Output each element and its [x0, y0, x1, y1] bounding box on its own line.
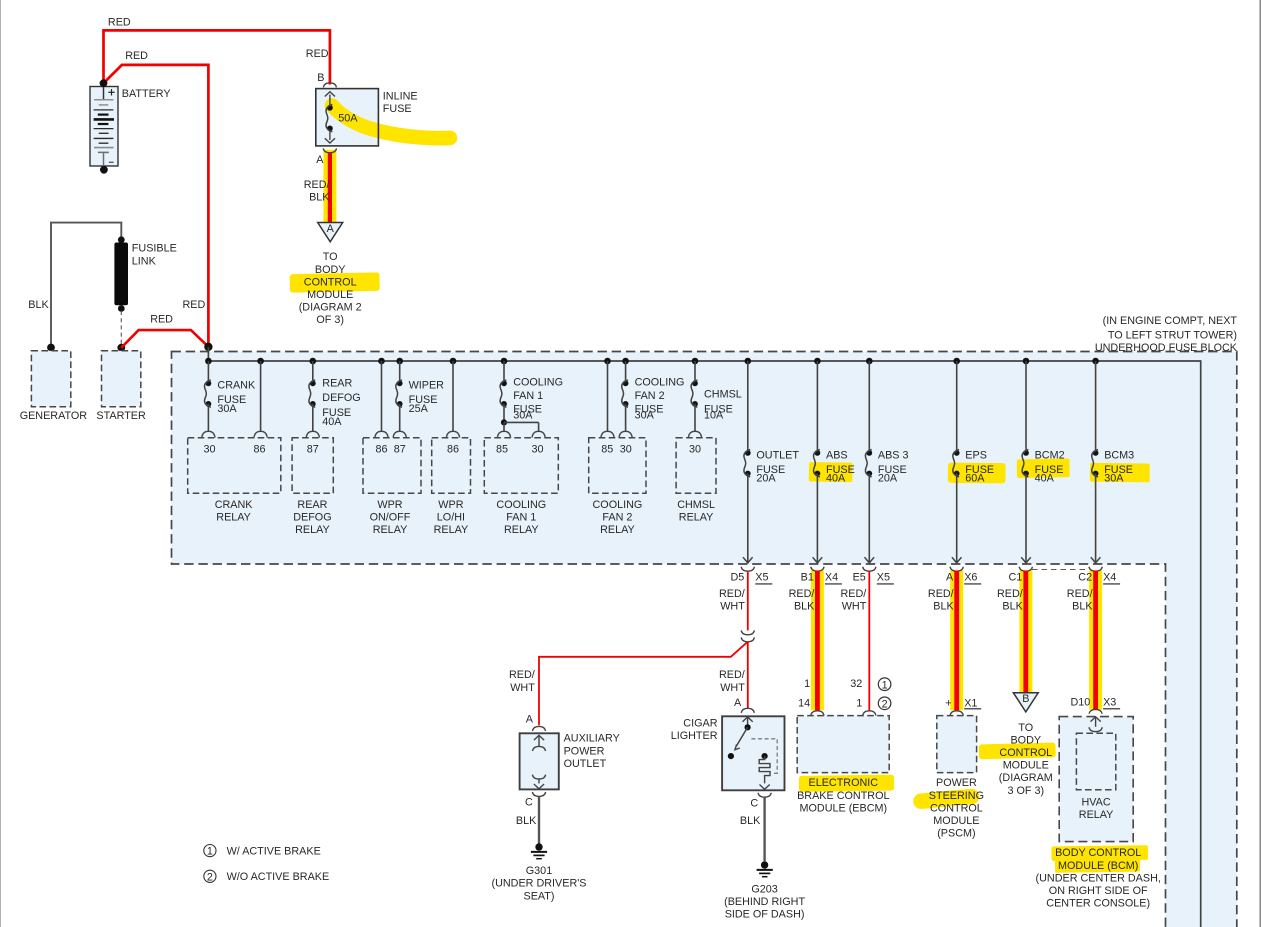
- svg-text:85: 85: [496, 443, 508, 455]
- svg-text:ELECTRONIC: ELECTRONIC: [809, 777, 879, 789]
- svg-text:BLK: BLK: [794, 601, 815, 613]
- svg-text:BLK: BLK: [1072, 601, 1093, 613]
- highlight on STEERING (PSCM label): [921, 797, 972, 802]
- svg-text:AUXILIARY: AUXILIARY: [564, 733, 620, 745]
- highlight on ELECTRONIC (EBCM label): [799, 775, 894, 792]
- auxiliary power outlet: [520, 714, 620, 809]
- starter: [96, 344, 146, 422]
- svg-text:D10: D10: [1070, 697, 1090, 709]
- wire bus to wpr lo/hi relay pin 86: [446, 361, 459, 438]
- screen edge line left: [0, 0, 2, 927]
- highlight swoosh over inline fuse 50A: [332, 106, 450, 139]
- svg-text:BLK: BLK: [740, 815, 761, 827]
- svg-text:REAR: REAR: [297, 499, 327, 511]
- svg-text:87: 87: [307, 443, 319, 455]
- svg-text:ON RIGHT SIDE OF: ON RIGHT SIDE OF: [1049, 885, 1148, 897]
- svg-text:X4: X4: [825, 572, 838, 584]
- svg-text:A: A: [526, 714, 534, 726]
- highlight band on wire B1 to EBCM: [811, 571, 824, 711]
- wire label RED/BLK at connector: [928, 588, 955, 613]
- svg-text:(IN ENGINE COMPT, NEXT: (IN ENGINE COMPT, NEXT: [1103, 315, 1238, 327]
- svg-text:30A: 30A: [513, 410, 533, 422]
- svg-text:X4: X4: [1103, 572, 1116, 584]
- svg-text:BLK: BLK: [933, 601, 954, 613]
- wire cooling fan 2 fuse to relay pin 30: [619, 404, 632, 438]
- svg-text:BODY CONTROL: BODY CONTROL: [1055, 847, 1141, 859]
- wire: main power bus inside fuse block: [205, 347, 1201, 927]
- svg-text:WIPER: WIPER: [409, 380, 445, 392]
- svg-text:RELAY: RELAY: [679, 512, 714, 524]
- connector D5 X5: [730, 567, 772, 584]
- svg-text:86: 86: [375, 443, 387, 455]
- HVAC relay (inside BCM): [1076, 733, 1115, 821]
- svg-text:C: C: [750, 797, 758, 809]
- svg-text:BLK: BLK: [28, 299, 49, 311]
- wire RED branch to auxiliary power outlet pin A: [509, 642, 748, 725]
- svg-text:(DIAGRAM 2: (DIAGRAM 2: [299, 302, 362, 314]
- svg-text:CONTROL: CONTROL: [930, 802, 983, 814]
- svg-text:30A: 30A: [635, 410, 655, 422]
- wire bus to crank relay pin 86: [254, 361, 267, 438]
- svg-text:RELAY: RELAY: [600, 524, 635, 536]
- svg-text:WHT: WHT: [720, 601, 745, 613]
- svg-text:CIGAR: CIGAR: [683, 718, 717, 730]
- svg-text:30: 30: [689, 443, 701, 455]
- highlight on EPS FUSE 60A: [948, 463, 1006, 484]
- fuse BCM2 fuse 40A: [1021, 361, 1064, 563]
- svg-text:CHMSL: CHMSL: [704, 389, 742, 401]
- svg-text:MODULE (BCM): MODULE (BCM): [1058, 860, 1138, 872]
- highlight band on RED/BLK wire below inline fuse: [323, 150, 336, 223]
- svg-text:RED/: RED/: [509, 669, 535, 681]
- svg-text:40A: 40A: [322, 416, 342, 428]
- svg-text:RELAY: RELAY: [373, 524, 408, 536]
- wire label RED/BLK at connector: [789, 588, 816, 613]
- svg-text:FUSE: FUSE: [383, 103, 412, 115]
- wire crank fuse to crank relay pin 30: [202, 404, 215, 438]
- svg-text:A: A: [946, 572, 954, 584]
- svg-text:FAN 2: FAN 2: [602, 512, 632, 524]
- generator: [20, 344, 88, 423]
- highlight on CONTROL (to BCM diagram 2 of 3): [290, 272, 380, 292]
- svg-text:FAN 2: FAN 2: [635, 390, 665, 402]
- svg-text:RELAY: RELAY: [216, 512, 251, 524]
- svg-text:FAN 1: FAN 1: [506, 512, 536, 524]
- svg-text:RED: RED: [150, 313, 173, 325]
- svg-text:RED/: RED/: [841, 588, 867, 600]
- svg-text:DEFOG: DEFOG: [293, 512, 331, 524]
- svg-text:D5: D5: [730, 572, 744, 584]
- svg-text:COOLING: COOLING: [593, 499, 643, 511]
- svg-text:COOLING: COOLING: [635, 377, 685, 389]
- wire label RED/BLK at connector: [997, 588, 1024, 613]
- WPR LO/HI relay: [432, 438, 471, 536]
- svg-text:X3: X3: [1103, 697, 1116, 709]
- svg-text:RELAY: RELAY: [1079, 809, 1114, 821]
- fuse ABS 3 fuse 20A: [865, 361, 909, 563]
- svg-text:G203: G203: [751, 884, 777, 896]
- svg-text:TO: TO: [323, 251, 338, 263]
- svg-text:86: 86: [447, 443, 459, 455]
- highlight on BCM3 FUSE 30A: [1090, 463, 1150, 482]
- svg-text:RED/: RED/: [719, 588, 745, 600]
- fuse CRANK fuse 30A: [205, 361, 256, 415]
- svg-text:BODY: BODY: [1010, 734, 1041, 746]
- svg-text:CENTER CONSOLE): CENTER CONSOLE): [1046, 898, 1150, 910]
- svg-text:G301: G301: [526, 865, 552, 877]
- svg-text:86: 86: [253, 443, 265, 455]
- ground G203: [724, 861, 805, 920]
- svg-text:STEERING: STEERING: [929, 790, 984, 802]
- highlight on BCM2 FUSE 40A: [1017, 458, 1070, 478]
- svg-text:RED: RED: [183, 299, 206, 311]
- svg-text:WHT: WHT: [720, 682, 745, 694]
- svg-text:RED/: RED/: [304, 179, 330, 191]
- svg-text:20A: 20A: [878, 473, 898, 485]
- svg-text:BLK: BLK: [516, 815, 537, 827]
- wire RED/BLK inline fuse to connector A: [304, 153, 331, 222]
- wire cooling fan 1 fuse split to relay pins 85 and 30: [497, 404, 545, 438]
- svg-text:10A: 10A: [704, 409, 724, 421]
- highlight on CONTROL (to BCM diagram 3 of 3): [979, 742, 1056, 759]
- svg-text:BCM3: BCM3: [1104, 450, 1134, 462]
- svg-text:RELAY: RELAY: [504, 524, 539, 536]
- connector B triangle (to body control module diagram 3 of 3): [999, 693, 1053, 797]
- highlight on BODY CONTROL MODULE (BCM) label: [1051, 845, 1148, 872]
- svg-text:+: +: [945, 698, 951, 710]
- connector C1: [1008, 567, 1032, 584]
- svg-text:ABS 3: ABS 3: [878, 450, 909, 462]
- highlight band on wire A to PSCM: [950, 571, 963, 711]
- svg-text:25A: 25A: [409, 403, 429, 415]
- svg-text:87: 87: [394, 443, 406, 455]
- svg-text:C1: C1: [1008, 572, 1022, 584]
- svg-text:X5: X5: [877, 572, 890, 584]
- svg-text:COOLING: COOLING: [496, 499, 546, 511]
- wire RED/WHT E5 to EBCM pin 32/1: [850, 571, 869, 710]
- svg-text:COOLING: COOLING: [513, 377, 563, 389]
- svg-text:32: 32: [850, 678, 862, 690]
- svg-text:30: 30: [531, 443, 543, 455]
- svg-text:CHMSL: CHMSL: [677, 499, 715, 511]
- svg-text:BCM2: BCM2: [1035, 450, 1065, 462]
- svg-text:A: A: [734, 697, 742, 709]
- svg-text:CONTROL: CONTROL: [999, 747, 1052, 759]
- footnote legend 2: w/o active brake: [204, 870, 329, 883]
- COOLING FAN 2 relay: [589, 438, 646, 536]
- svg-text:LINK: LINK: [132, 255, 157, 267]
- ground G301: [491, 843, 586, 902]
- svg-text:RED/: RED/: [789, 588, 815, 600]
- svg-text:BATTERY: BATTERY: [122, 88, 171, 100]
- wire RED/BLK A to PSCM pin +: [945, 571, 981, 711]
- svg-text:50A: 50A: [338, 113, 358, 125]
- svg-text:WHT: WHT: [842, 601, 867, 613]
- svg-text:30: 30: [203, 443, 215, 455]
- svg-text:WPR: WPR: [377, 499, 402, 511]
- svg-text:LO/HI: LO/HI: [437, 512, 465, 524]
- wire RED battery positive to underhood fuse block: [104, 50, 209, 347]
- svg-text:B: B: [317, 72, 324, 84]
- svg-text:(BEHIND RIGHT: (BEHIND RIGHT: [724, 896, 805, 908]
- svg-text:BLK: BLK: [309, 192, 330, 204]
- connector B1 X4: [801, 567, 842, 584]
- svg-text:1: 1: [804, 678, 810, 690]
- svg-text:C2: C2: [1078, 572, 1092, 584]
- wire label RED/WHT at connector: [841, 588, 867, 613]
- footnote marker 1 (w/ active brake) at EBCM: [878, 678, 891, 691]
- svg-text:STARTER: STARTER: [96, 410, 146, 422]
- wire RED/BLK C2 to BCM pin D10: [1070, 571, 1120, 710]
- wire bus to cooling fan 2 relay pin 85: [601, 361, 614, 438]
- fuse OUTLET fuse 20A: [743, 361, 799, 563]
- svg-text:2: 2: [882, 698, 888, 710]
- svg-text:A: A: [316, 154, 324, 166]
- fusible link: [114, 236, 176, 345]
- connector A X6: [946, 567, 981, 584]
- svg-text:30A: 30A: [1104, 473, 1124, 485]
- fuse ABS fuse 40A: [813, 361, 855, 563]
- svg-text:TO LEFT STRUT TOWER): TO LEFT STRUT TOWER): [1108, 329, 1237, 341]
- wire label RED/BLK at connector: [1067, 588, 1094, 613]
- svg-text:(UNDER CENTER DASH,: (UNDER CENTER DASH,: [1036, 872, 1161, 884]
- svg-text:(DIAGRAM: (DIAGRAM: [999, 772, 1053, 784]
- inline fuse 50A: [316, 72, 418, 166]
- wire wiper fuse to wpr on/off relay pin 87: [393, 404, 406, 438]
- connector A triangle (to body control module diagram 2 of 3): [299, 223, 362, 327]
- svg-text:ON/OFF: ON/OFF: [370, 512, 411, 524]
- svg-text:85: 85: [601, 443, 613, 455]
- svg-text:MODULE (EBCM): MODULE (EBCM): [800, 802, 888, 814]
- CRANK relay: [188, 438, 281, 524]
- wire RED/WHT from D5 to splice: [747, 571, 749, 630]
- power steering control module (PSCM): [929, 711, 984, 840]
- svg-text:1: 1: [207, 846, 213, 858]
- svg-text:W/O ACTIVE BRAKE: W/O ACTIVE BRAKE: [227, 871, 330, 883]
- svg-text:30A: 30A: [217, 403, 237, 415]
- svg-text:FAN 1: FAN 1: [513, 390, 543, 402]
- fuse CHMSL fuse 10A: [691, 361, 742, 421]
- wire bus to wpr on/off relay pin 86: [375, 361, 388, 438]
- svg-text:14: 14: [798, 698, 810, 710]
- svg-text:POWER: POWER: [936, 777, 977, 789]
- svg-text:B: B: [1022, 693, 1029, 705]
- svg-text:40A: 40A: [826, 473, 846, 485]
- svg-text:BODY: BODY: [315, 264, 346, 276]
- svg-text:OF 3): OF 3): [316, 314, 344, 326]
- fuse COOLING FAN 1 fuse 30A: [500, 361, 563, 422]
- wire chmsl fuse to chmsl relay pin 30: [688, 404, 701, 438]
- svg-text:C: C: [525, 797, 533, 809]
- wire label RED/WHT at connector: [719, 588, 745, 613]
- svg-text:CRANK: CRANK: [215, 499, 254, 511]
- svg-text:60A: 60A: [965, 473, 985, 485]
- wire BLK cigar lighter to ground G203: [740, 797, 765, 861]
- svg-text:RELAY: RELAY: [434, 524, 469, 536]
- svg-text:B1: B1: [801, 572, 814, 584]
- inline connector on RED/WHT wire: [741, 630, 754, 641]
- svg-text:FUSIBLE: FUSIBLE: [132, 243, 177, 255]
- svg-text:UNDERHOOD FUSE BLOCK: UNDERHOOD FUSE BLOCK: [1095, 342, 1238, 354]
- svg-text:X6: X6: [964, 572, 977, 584]
- connector C2 X4: [1078, 567, 1120, 584]
- svg-text:(PSCM): (PSCM): [937, 828, 975, 840]
- svg-text:RED/: RED/: [997, 588, 1023, 600]
- svg-text:RED/: RED/: [1067, 588, 1093, 600]
- svg-text:DEFOG: DEFOG: [322, 392, 360, 404]
- svg-text:RED: RED: [125, 50, 148, 62]
- svg-text:WPR: WPR: [438, 499, 463, 511]
- svg-text:RED: RED: [306, 48, 329, 60]
- highlight band on wire C2 to BCM: [1089, 571, 1102, 710]
- svg-text:MODULE: MODULE: [307, 289, 353, 301]
- svg-text:1: 1: [856, 698, 862, 710]
- svg-text:POWER: POWER: [564, 745, 605, 757]
- svg-text:RED/: RED/: [928, 588, 954, 600]
- wire RED battery positive to inline fuse pin B: [104, 17, 330, 85]
- connector E5 X5: [853, 567, 894, 584]
- wire RED/BLK B1 to EBCM pin 1/14: [798, 571, 817, 711]
- fuse EPS fuse 60A: [952, 361, 994, 563]
- CHMSL relay: [676, 438, 716, 524]
- svg-text:ABS: ABS: [826, 450, 848, 462]
- svg-text:RED/: RED/: [719, 669, 745, 681]
- svg-text:GENERATOR: GENERATOR: [20, 410, 88, 422]
- fuse BCM3 fuse 30A: [1091, 361, 1134, 563]
- footnote legend 1: w/ active brake: [204, 845, 321, 858]
- svg-text:SEAT): SEAT): [524, 890, 555, 902]
- highlight band on wire C1 to connector B: [1019, 571, 1032, 693]
- svg-text:REAR: REAR: [322, 378, 352, 390]
- svg-text:(UNDER DRIVER'S: (UNDER DRIVER'S: [491, 878, 586, 890]
- svg-text:X5: X5: [755, 572, 768, 584]
- cigar lighter: [671, 697, 785, 809]
- svg-text:X1: X1: [964, 698, 977, 710]
- svg-text:OUTLET: OUTLET: [756, 450, 799, 462]
- svg-text:CONTROL: CONTROL: [304, 276, 357, 288]
- svg-text:CRANK: CRANK: [217, 380, 256, 392]
- wire BLK generator to fusible link: [28, 223, 121, 348]
- svg-text:40A: 40A: [1035, 473, 1055, 485]
- svg-text:2: 2: [207, 871, 213, 883]
- svg-text:RED: RED: [108, 17, 131, 29]
- screen edge line right: [1259, 0, 1261, 927]
- inline fuse box fill: [316, 89, 379, 146]
- svg-text:20A: 20A: [756, 473, 776, 485]
- svg-text:1: 1: [882, 679, 888, 691]
- svg-text:INLINE: INLINE: [383, 91, 418, 103]
- svg-text:TO: TO: [1018, 722, 1033, 734]
- svg-text:LIGHTER: LIGHTER: [671, 730, 718, 742]
- node: fuse block feed junction: [204, 343, 212, 351]
- svg-text:OUTLET: OUTLET: [564, 758, 607, 770]
- wire RED/BLK C1 to connector B: [1023, 571, 1028, 693]
- svg-text:WHT: WHT: [510, 682, 535, 694]
- underhood fuse block (dashed enclosure, blue fill): [172, 315, 1238, 927]
- WPR ON/OFF relay: [363, 438, 421, 536]
- svg-text:30: 30: [620, 443, 632, 455]
- wire RED starter to underhood fuse block: [121, 313, 208, 347]
- body control module (BCM): [1036, 709, 1161, 909]
- svg-text:E5: E5: [853, 572, 866, 584]
- COOLING FAN 1 relay: [484, 438, 558, 536]
- electronic brake control module (EBCM): [797, 711, 889, 815]
- fuse COOLING FAN 2 fuse 30A: [622, 361, 685, 422]
- footnote marker 2 (w/o active brake) at EBCM: [878, 697, 891, 710]
- highlight on ABS FUSE 40A: [809, 462, 853, 482]
- svg-text:SIDE OF DASH): SIDE OF DASH): [725, 909, 805, 921]
- battery: [90, 79, 171, 173]
- svg-text:MODULE: MODULE: [933, 815, 979, 827]
- svg-text:BRAKE CONTROL: BRAKE CONTROL: [797, 790, 889, 802]
- svg-text:BLK: BLK: [1002, 601, 1023, 613]
- REAR DEFOG relay: [292, 438, 333, 536]
- svg-text:A: A: [327, 223, 335, 235]
- wire BLK aux outlet to ground G301: [516, 796, 539, 843]
- svg-text:HVAC: HVAC: [1081, 797, 1110, 809]
- fuse REAR DEFOG fuse 40A: [309, 361, 361, 428]
- svg-text:RELAY: RELAY: [295, 524, 330, 536]
- svg-text:3 OF 3): 3 OF 3): [1007, 785, 1044, 797]
- svg-text:MODULE: MODULE: [1003, 760, 1049, 772]
- wire RED/WHT splice to cigar lighter pin A: [719, 641, 748, 708]
- fuse WIPER fuse 25A: [396, 361, 444, 415]
- wire rear defog fuse to relay pin 87: [306, 404, 319, 438]
- svg-text:W/ ACTIVE BRAKE: W/ ACTIVE BRAKE: [227, 846, 321, 858]
- svg-text:EPS: EPS: [965, 450, 987, 462]
